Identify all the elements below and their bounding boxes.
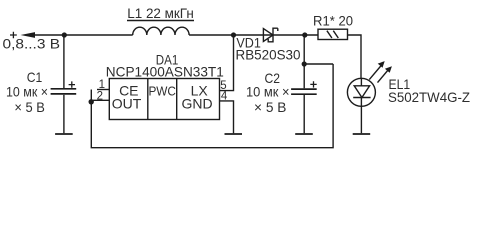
svg-text:4: 4 bbox=[221, 91, 228, 103]
svg-text:RB520S30: RB520S30 bbox=[236, 46, 301, 62]
svg-text:R1* 20: R1* 20 bbox=[313, 13, 353, 29]
svg-text:S502TW4G-Z: S502TW4G-Z bbox=[388, 89, 470, 105]
svg-text:OUT: OUT bbox=[112, 96, 142, 112]
svg-text:L1 22 мкГн: L1 22 мкГн bbox=[127, 6, 194, 21]
svg-text:× 5 В: × 5 В bbox=[14, 99, 45, 115]
svg-text:2: 2 bbox=[97, 91, 103, 103]
svg-text:PWC: PWC bbox=[148, 83, 176, 98]
svg-text:10 мк ×: 10 мк × bbox=[246, 83, 290, 99]
svg-text:NCP1400ASN33T1: NCP1400ASN33T1 bbox=[106, 64, 224, 80]
svg-text:10 мк ×: 10 мк × bbox=[6, 83, 48, 99]
svg-text:0,8...3 В: 0,8...3 В bbox=[3, 36, 61, 52]
svg-text:GND: GND bbox=[181, 96, 212, 112]
svg-text:× 5 В: × 5 В bbox=[254, 99, 286, 115]
svg-text:1: 1 bbox=[99, 79, 105, 91]
